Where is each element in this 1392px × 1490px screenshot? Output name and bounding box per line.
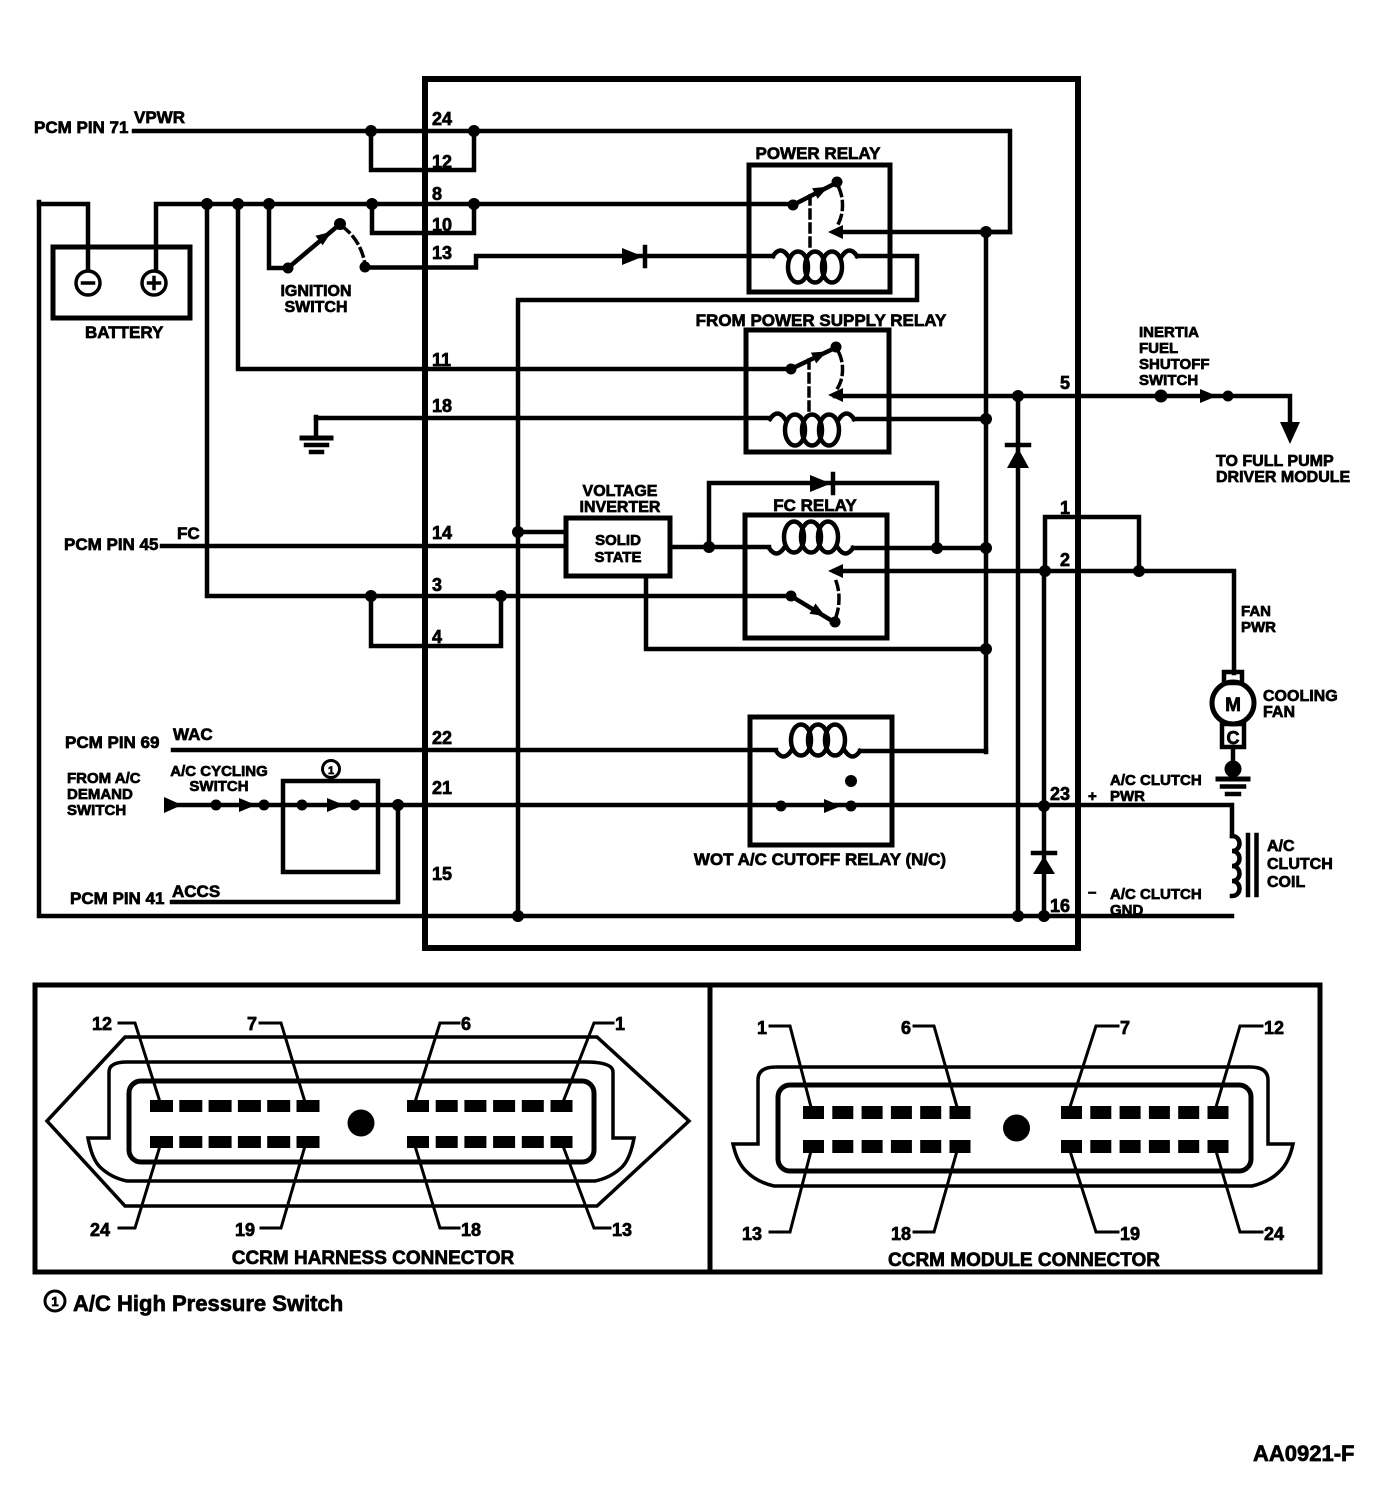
voltage inverter U2 box SOLID STATE: [566, 518, 670, 576]
svg-text:2: 2: [1060, 550, 1070, 570]
svg-text:12: 12: [1264, 1018, 1284, 1038]
node junction battery feed to pin3 drop: [201, 198, 213, 210]
cooling fan motor M1 body: [1212, 682, 1254, 724]
wire pin 22 WAC to WOT relay coil: [173, 748, 776, 753]
module pins bottom-right group: [1061, 1140, 1229, 1153]
node junction inverter output to diode bypass: [703, 541, 715, 553]
svg-text:FROM POWER SUPPLY RELAY: FROM POWER SUPPLY RELAY: [696, 311, 947, 330]
arrow to fuel pump driver module: [1280, 422, 1300, 444]
battery negative terminal: [76, 271, 100, 295]
svg-text:FC RELAY: FC RELAY: [773, 496, 857, 515]
svg-text:3: 3: [432, 575, 442, 595]
wire ACCS to pin21 junction: [172, 805, 398, 902]
svg-text:7: 7: [1120, 1018, 1130, 1038]
svg-text:A/C High Pressure Switch: A/C High Pressure Switch: [73, 1291, 343, 1316]
svg-text:1: 1: [757, 1018, 767, 1038]
node junction pin8 wire inside box: [468, 198, 480, 210]
CCRM module box U1: [425, 79, 1078, 948]
node junction battery feed 8-10 loop: [366, 198, 378, 210]
power relay dashed actuator: [808, 196, 812, 252]
module label 1 with leader: [757, 1018, 811, 1107]
harness label 24 with leader: [90, 1146, 160, 1240]
harness connector pin housing: [129, 1081, 594, 1162]
module label 6 with leader: [901, 1018, 957, 1107]
harness connector inner shell: [88, 1062, 634, 1181]
ignition switch dashed throw: [343, 227, 365, 262]
clutch plate bar 2: [1254, 835, 1259, 895]
battery B1 box: [53, 247, 190, 318]
cycling switch dot a: [297, 800, 308, 811]
node junction FC coil return to riser: [980, 542, 992, 554]
module label 12 with leader: [1216, 1018, 1284, 1107]
wire left outer ground rail and bottom wire to pin15/pin16: [39, 202, 1232, 916]
svg-text:SWITCH: SWITCH: [189, 778, 248, 795]
svg-text:POWER RELAY: POWER RELAY: [755, 144, 881, 163]
relay K2 common contact: [786, 364, 797, 375]
svg-text:FC: FC: [177, 524, 200, 543]
svg-text:24: 24: [90, 1220, 110, 1240]
A/C clutch coil L5: [1232, 836, 1240, 896]
node junction battery feed to pin11 drop: [232, 198, 244, 210]
demand switch dot b: [259, 800, 270, 811]
svg-text:+: +: [1088, 788, 1097, 805]
harness label 6 with leader: [415, 1014, 471, 1102]
module connector pin housing: [778, 1085, 1251, 1171]
WOT relay NC actuator dot: [845, 775, 857, 787]
wire 24-12 loop through pin 12: [371, 131, 474, 170]
svg-text:PWR: PWR: [1110, 788, 1145, 805]
power relay K1 box: [749, 165, 890, 292]
wire diode branch vertical: [1016, 396, 1021, 916]
node junction pin5 wire to diode branch: [1012, 390, 1024, 402]
svg-text:SOLID: SOLID: [595, 532, 641, 549]
node junction pin3 wire 3-4 loop right: [495, 590, 507, 602]
relay K2 dashed actuator: [807, 360, 811, 415]
WOT relay coil L4: [776, 751, 860, 757]
svg-text:5: 5: [1060, 373, 1070, 393]
node junction coil return to riser: [980, 413, 992, 425]
wire pin 5 from relay K2 output to inertia switch: [835, 396, 1290, 432]
WOT switch arrowhead: [824, 799, 841, 813]
power relay dashed throw: [837, 188, 843, 226]
node junction bypass to coil return: [931, 542, 943, 554]
svg-text:DEMAND: DEMAND: [67, 786, 133, 803]
svg-text:SWITCH: SWITCH: [1139, 372, 1198, 389]
WOT switch right contact: [846, 801, 857, 812]
node junction pin2 wire to loop right: [1133, 565, 1145, 577]
svg-text:INVERTER: INVERTER: [580, 499, 661, 516]
svg-text:SWITCH: SWITCH: [284, 299, 347, 316]
wire pin 14 FC from PCM to solid state inverter: [162, 544, 566, 549]
node junction ground rail to stub: [512, 526, 524, 538]
ground symbol G2 fan: [1218, 761, 1248, 795]
svg-text:COOLING: COOLING: [1263, 688, 1338, 705]
module label 7 with leader: [1070, 1018, 1130, 1107]
svg-text:SHUTOFF: SHUTOFF: [1139, 356, 1210, 373]
svg-text:TO FULL PUMP: TO FULL PUMP: [1216, 453, 1334, 470]
svg-text:23: 23: [1050, 784, 1070, 804]
wire pin 21 A/C demand run to pin 23 and clutch: [178, 805, 1232, 836]
ignition switch top pivot dot: [334, 218, 346, 230]
svg-text:–: –: [1088, 884, 1096, 901]
svg-text:6: 6: [901, 1018, 911, 1038]
ignition switch arm: [288, 224, 340, 268]
callout circle 1: [323, 761, 340, 778]
svg-text:6: 6: [461, 1014, 471, 1034]
wire ground rail stub into solid state inverter: [518, 530, 566, 535]
ignition switch right contact: [360, 262, 371, 273]
FC relay common contact: [786, 591, 797, 602]
wire 8-10 loop through pin 10: [372, 204, 474, 233]
harness pins top-left group: [150, 1100, 320, 1112]
ignition switch arm arrowhead: [315, 232, 331, 245]
harness label 13 with leader: [563, 1146, 632, 1240]
cycling switch arrowhead: [327, 798, 344, 812]
diode CR2 on bypass: [810, 474, 833, 493]
svg-text:PCM PIN 45: PCM PIN 45: [64, 535, 158, 554]
FC relay K3 box: [745, 515, 887, 638]
WOT switch left contact: [776, 801, 787, 812]
harness label 18 with leader: [415, 1146, 481, 1240]
wire FC coil return to main riser: [853, 546, 986, 551]
inertia switch contact dot right: [1223, 391, 1234, 402]
node junction bottom rail to clutch branch: [1038, 910, 1050, 922]
svg-text:12: 12: [92, 1014, 112, 1034]
wire WOT coil return up the main riser: [860, 749, 986, 754]
svg-text:INERTIA: INERTIA: [1139, 324, 1199, 341]
FC relay output contact arrowhead: [828, 564, 843, 578]
demand switch dot a: [211, 800, 222, 811]
svg-text:PCM PIN 69: PCM PIN 69: [65, 733, 159, 752]
wire pin 13 from ignition to power relay coil: [365, 256, 773, 268]
module connector panel box: [710, 985, 1320, 1272]
wire relay K2 coil return to main riser: [854, 417, 986, 422]
svg-text:14: 14: [432, 523, 452, 543]
diode CR1 on pin13 wire: [622, 247, 645, 266]
harness label 19 with leader: [235, 1146, 305, 1240]
wire diode bypass loop over FC relay: [709, 483, 937, 548]
svg-text:WOT A/C CUTOFF RELAY (N/C): WOT A/C CUTOFF RELAY (N/C): [694, 850, 946, 869]
wire pin 11 from battery feed to relay K2: [238, 204, 791, 369]
wire inverter output to FC relay coil: [670, 545, 769, 550]
node junction inverter lower output to riser: [980, 643, 992, 655]
harness center index hole: [348, 1110, 375, 1137]
svg-text:GND: GND: [1110, 902, 1144, 919]
svg-text:22: 22: [432, 728, 452, 748]
svg-text:A/C CLUTCH: A/C CLUTCH: [1110, 772, 1202, 789]
relay K2 coil L2: [770, 414, 854, 420]
svg-text:A/C: A/C: [1267, 838, 1295, 855]
svg-text:VPWR: VPWR: [134, 108, 185, 127]
svg-text:8: 8: [432, 184, 442, 204]
svg-text:PCM PIN 41: PCM PIN 41: [70, 889, 164, 908]
power relay arm: [793, 183, 836, 205]
demand switch arrowhead: [239, 798, 256, 812]
svg-text:CCRM HARNESS CONNECTOR: CCRM HARNESS CONNECTOR: [232, 1248, 515, 1269]
svg-text:STATE: STATE: [595, 549, 642, 566]
FC relay arm arrowhead: [809, 604, 825, 617]
module pins top-left group: [803, 1106, 971, 1119]
harness connector outer shell: [47, 1037, 689, 1206]
harness label 1 with leader: [563, 1014, 625, 1102]
power relay pivot dot: [832, 177, 843, 188]
wire motor to ground: [1231, 747, 1236, 765]
svg-text:A/C CLUTCH: A/C CLUTCH: [1110, 886, 1202, 903]
wire power relay coil return down and to ground rail: [518, 256, 917, 916]
svg-text:BATTERY: BATTERY: [85, 323, 164, 342]
input arrowhead from A/C demand switch: [164, 797, 182, 813]
harness connector panel box: [35, 985, 710, 1272]
svg-text:CCRM MODULE CONNECTOR: CCRM MODULE CONNECTOR: [888, 1250, 1160, 1271]
node junction battery feed to ignition switch: [263, 198, 275, 210]
svg-text:1: 1: [328, 765, 334, 777]
power relay common contact: [788, 200, 799, 211]
relay K2 arm arrowhead: [811, 351, 827, 363]
svg-text:COIL: COIL: [1267, 874, 1305, 891]
diode CR3 on branch: [1007, 445, 1029, 468]
clutch plate bar 1: [1246, 835, 1251, 895]
wire battery positive feed to pin 8 and power relay: [156, 204, 793, 269]
wire pin 2 from FC relay output to fan drop: [835, 571, 1234, 673]
svg-text:24: 24: [432, 109, 452, 129]
WOT relay K4 box: [750, 717, 892, 845]
svg-text:ACCS: ACCS: [172, 882, 220, 901]
FC relay arm end dot: [830, 617, 841, 628]
svg-text:7: 7: [247, 1014, 257, 1034]
cycling switch dot b: [350, 800, 361, 811]
node junction bottom rail to diode branch: [1012, 910, 1024, 922]
wire inverter lower output to riser: [646, 576, 986, 649]
svg-text:CLUTCH: CLUTCH: [1267, 856, 1333, 873]
wire pin 3 from battery drop to FC relay common: [207, 204, 791, 596]
ground symbol G1: [302, 417, 331, 452]
node junction pin3 wire 3-4 loop left: [365, 590, 377, 602]
svg-text:18: 18: [891, 1224, 911, 1244]
svg-text:1: 1: [615, 1014, 625, 1034]
svg-text:VOLTAGE: VOLTAGE: [583, 483, 658, 500]
svg-text:18: 18: [432, 396, 452, 416]
ignition switch S1 drop wire: [269, 204, 288, 268]
node junction bottom rail to ground vertical: [512, 910, 524, 922]
node junction pin21 wire to ACCS riser: [392, 799, 404, 811]
power supply relay K2 box: [746, 330, 889, 452]
svg-text:FROM A/C: FROM A/C: [67, 770, 141, 787]
diode CR4 on clutch branch: [1033, 853, 1055, 874]
ignition switch left contact: [283, 263, 294, 274]
module label 19 with leader: [1070, 1151, 1140, 1244]
cooling fan motor M1 top terminal: [1224, 672, 1242, 683]
svg-text:1: 1: [51, 1294, 58, 1309]
svg-text:13: 13: [742, 1224, 762, 1244]
relay K2 pivot dot: [831, 342, 842, 353]
svg-text:16: 16: [1050, 896, 1070, 916]
harness pins top-right group: [407, 1100, 573, 1112]
relay K2 arm: [791, 348, 835, 369]
FC relay coil L3: [769, 548, 853, 554]
module center index hole: [1003, 1115, 1030, 1142]
svg-text:13: 13: [432, 243, 452, 263]
wire 1-2 loop through pin 1: [1045, 517, 1139, 571]
svg-text:24: 24: [1264, 1224, 1284, 1244]
footnote callout circle 1: [45, 1291, 65, 1311]
wire VPWR pin24 run with corner down to power relay output: [134, 131, 1010, 232]
svg-text:FUEL: FUEL: [1139, 340, 1178, 357]
wire 3-4 loop through pin 4: [371, 596, 501, 646]
module connector outer shell: [733, 1067, 1293, 1186]
svg-text:IGNITION: IGNITION: [280, 283, 351, 300]
module pins top-right group: [1061, 1106, 1229, 1119]
svg-text:21: 21: [432, 778, 452, 798]
module label 13 with leader: [742, 1151, 811, 1244]
harness pins bottom-right group: [407, 1136, 573, 1148]
module label 18 with leader: [891, 1151, 957, 1244]
svg-text:PCM PIN 71: PCM PIN 71: [34, 118, 128, 137]
wire power relay output to vertical riser: [835, 230, 1010, 235]
svg-text:WAC: WAC: [173, 725, 213, 744]
wire pin 18 from ground to relay K2 coil: [316, 416, 770, 421]
svg-text:PWR: PWR: [1241, 619, 1276, 636]
svg-text:SWITCH: SWITCH: [67, 802, 126, 819]
relay K2 output contact arrowhead: [828, 388, 843, 402]
battery positive terminal: [142, 271, 166, 295]
FC relay dashed throw: [836, 581, 839, 617]
module pins bottom-left group: [803, 1140, 971, 1153]
inertia switch contact dot left: [1155, 390, 1168, 403]
wire main riser vertical: [984, 232, 989, 752]
wire battery negative to left ground rail corner: [39, 204, 88, 269]
svg-text:FAN: FAN: [1263, 704, 1295, 721]
svg-text:19: 19: [1120, 1224, 1140, 1244]
power relay coil L1: [773, 251, 857, 257]
svg-text:DRIVER MODULE: DRIVER MODULE: [1216, 469, 1351, 486]
svg-text:15: 15: [432, 864, 452, 884]
node junction on pin24 wire (inside box): [468, 125, 480, 137]
inertia switch arrowhead: [1200, 389, 1217, 403]
harness pins bottom-left group: [150, 1136, 320, 1148]
svg-text:FAN: FAN: [1241, 603, 1271, 620]
power relay output contact arrowhead: [828, 225, 843, 239]
svg-text:18: 18: [461, 1220, 481, 1240]
svg-text:AA0921-F: AA0921-F: [1253, 1441, 1354, 1466]
svg-text:M: M: [1225, 695, 1241, 716]
harness label 7 with leader: [247, 1014, 305, 1102]
node junction output wire to main riser: [980, 226, 992, 238]
svg-text:13: 13: [612, 1220, 632, 1240]
node junction pin23 wire to clutch diode branch: [1038, 800, 1050, 812]
power relay arm arrowhead: [812, 187, 828, 199]
svg-text:19: 19: [235, 1220, 255, 1240]
harness label 12 with leader: [92, 1014, 160, 1102]
module label 24 with leader: [1216, 1151, 1284, 1244]
wire clutch branch vertical with diode: [1042, 571, 1047, 916]
node junction pin2 wire to loop left: [1039, 565, 1051, 577]
node junction on pin24 wire (outside loop): [365, 125, 377, 137]
cooling fan motor M1 bottom terminal C: [1222, 724, 1244, 747]
A/C cycling switch box: [283, 781, 378, 872]
FC relay arm: [791, 596, 834, 622]
relay K2 dashed throw: [837, 353, 843, 389]
